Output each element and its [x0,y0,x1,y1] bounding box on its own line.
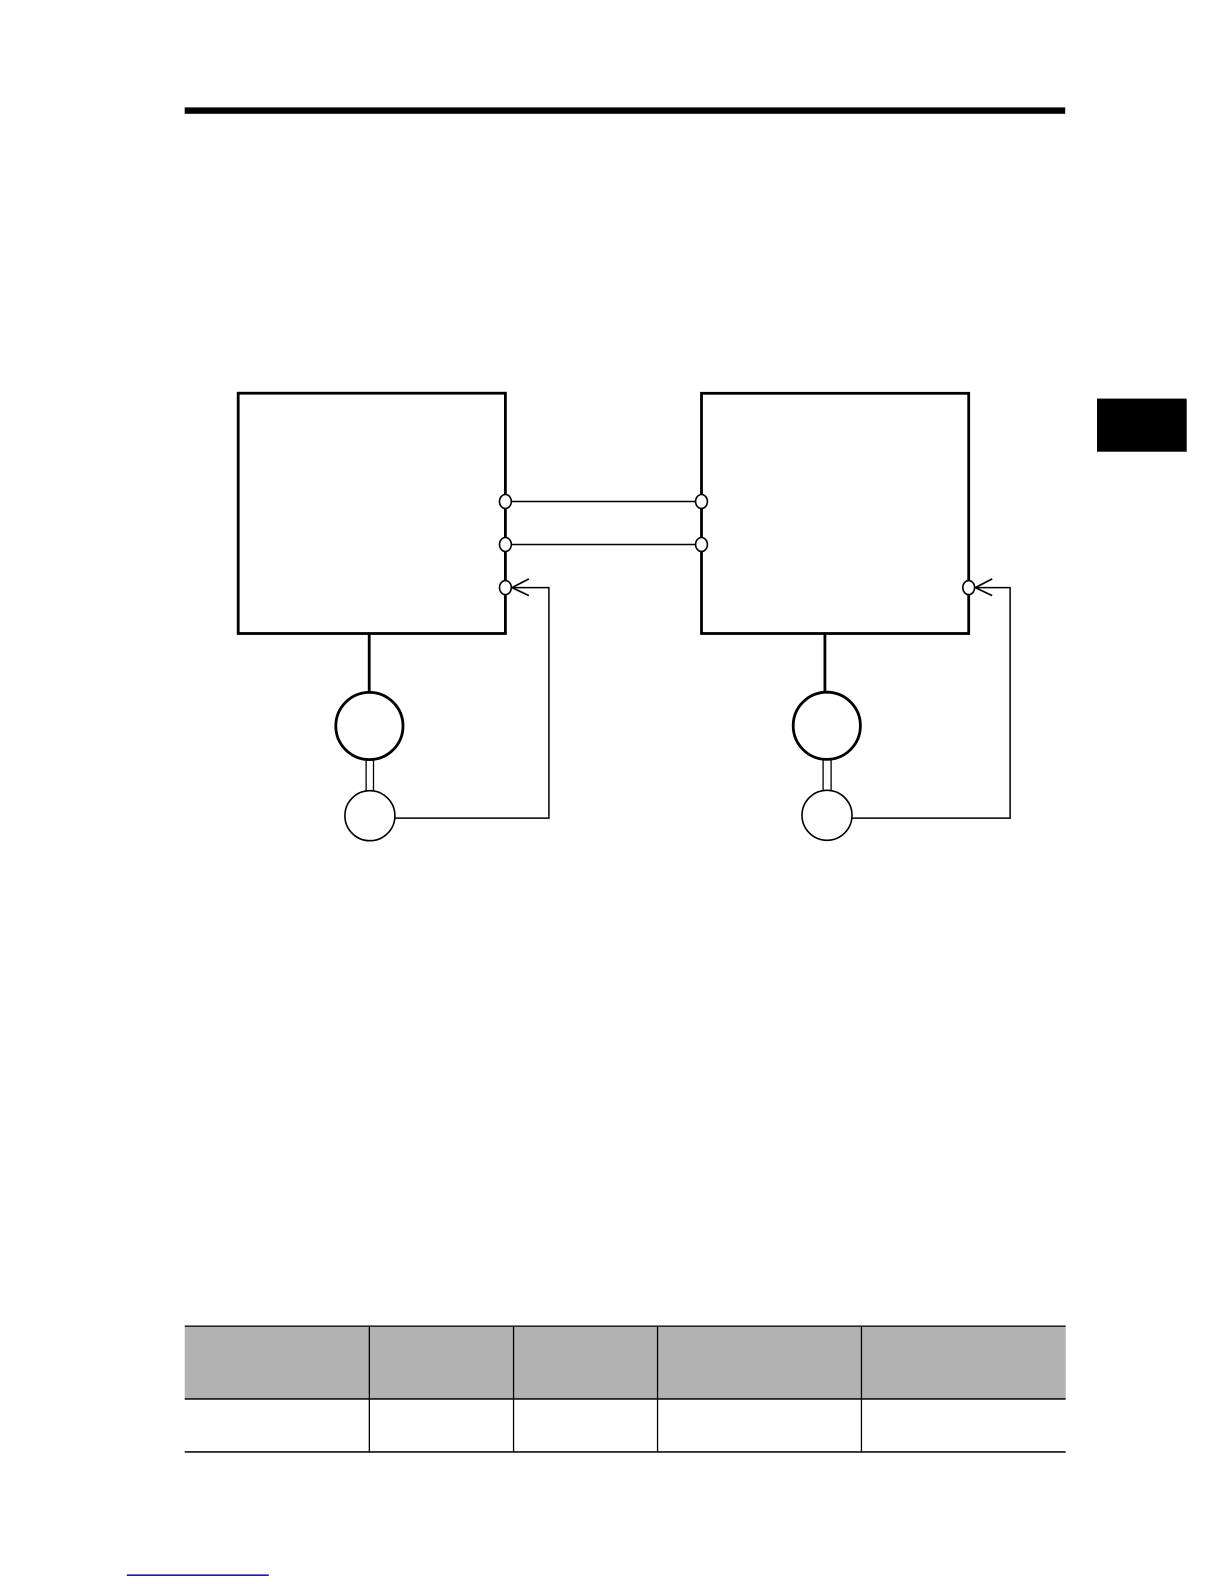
block box U2 (right controller) [702,393,969,633]
footnote link underline [127,1574,269,1576]
wire: bus line 2 between U1 and U2 [505,544,701,546]
coupling double-link M1 to E1 [366,760,373,793]
port P6 (feedback input) on U2 right edge [963,581,975,595]
motor M1 (large circle) [336,692,403,759]
table header fill [185,1327,1066,1399]
header rule [185,107,1065,113]
table column divider 1 [369,1326,370,1453]
port P1 on U1 right edge [500,495,512,509]
table column divider 3 [657,1326,658,1453]
port P3 (feedback input) on U1 right edge [500,581,512,595]
wire: stem from U2 to motor M2 [824,635,827,695]
coupling double-link M2 to E2 [823,760,831,793]
table header bottom border [185,1398,1066,1400]
wire: feedback loop right (encoder E2 to U2 input port) [827,588,1010,819]
table column divider 4 [861,1326,862,1453]
encoder E1 (small circle) [345,791,395,841]
motor M2 (large circle) [793,692,860,759]
encoder E2 (small circle) [802,790,852,840]
table top border [185,1326,1066,1327]
wire: bus line 1 between U1 and U2 [505,501,701,503]
wire: stem from U1 to motor M1 [368,635,371,695]
arrowhead into U2 port [975,579,992,596]
port P2 on U1 right edge [500,538,512,552]
wire: feedback loop left (encoder E1 to U1 input port) [370,588,549,819]
port P5 on U2 left edge [696,538,708,552]
table bottom border [185,1451,1066,1453]
chapter tab [1097,399,1187,452]
arrowhead into U1 port [512,579,529,596]
port P4 on U2 left edge [696,495,708,509]
block box U1 (left controller) [238,393,505,633]
table column divider 2 [513,1326,514,1453]
